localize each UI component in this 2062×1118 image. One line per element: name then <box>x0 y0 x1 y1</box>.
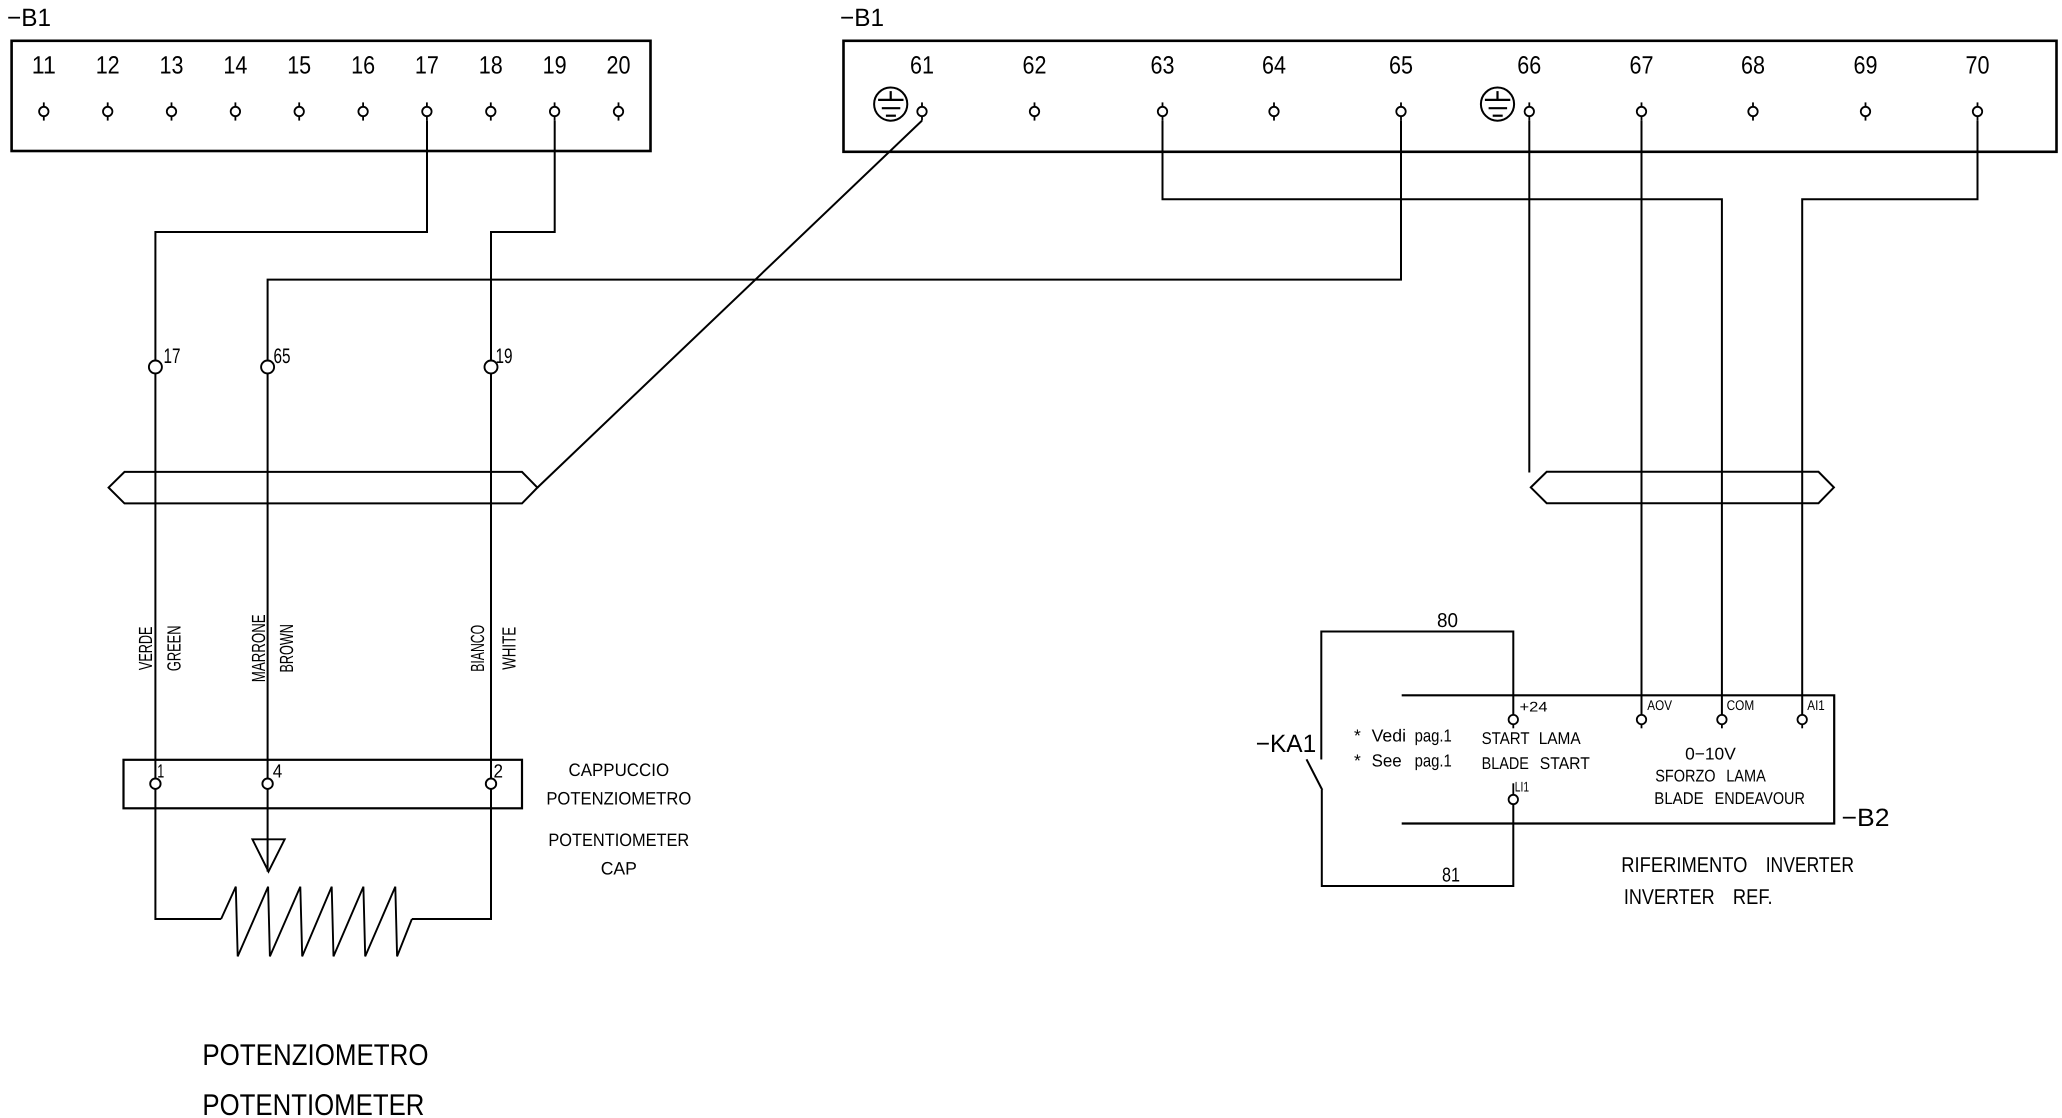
svg-text:−B2: −B2 <box>1842 804 1890 832</box>
svg-text:SFORZO: SFORZO <box>1655 767 1715 786</box>
svg-text:19: 19 <box>543 52 567 80</box>
svg-text:LAMA: LAMA <box>1726 767 1766 786</box>
svg-text:See: See <box>1372 751 1402 771</box>
svg-text:INVERTER: INVERTER <box>1624 885 1715 909</box>
terminal AOV circle <box>1637 715 1646 724</box>
svg-text:INVERTER: INVERTER <box>1766 853 1854 877</box>
node 19 connection circle <box>485 361 498 374</box>
svg-text:START: START <box>1482 729 1530 748</box>
svg-text:64: 64 <box>1262 52 1286 80</box>
svg-text:66: 66 <box>1517 52 1541 80</box>
terminal 66 connection point <box>1528 102 1530 107</box>
svg-text:13: 13 <box>160 52 184 80</box>
connector pin 4 circle <box>262 779 272 789</box>
svg-text:Vedi: Vedi <box>1372 726 1406 746</box>
cable shield symbol (right, inverter cable) <box>1531 472 1834 503</box>
terminal 14 connection point <box>234 102 236 107</box>
svg-text:−KA1: −KA1 <box>1256 730 1317 758</box>
wire 80 (KA1 to +24) <box>1321 632 1513 760</box>
svg-text:POTENZIOMETRO: POTENZIOMETRO <box>546 789 691 809</box>
svg-text:VERDE: VERDE <box>136 627 157 671</box>
svg-text:17: 17 <box>164 345 181 368</box>
svg-text:CAPPUCCIO: CAPPUCCIO <box>569 760 670 780</box>
svg-text:18: 18 <box>479 52 503 80</box>
terminal block -B1 (11-20) outline <box>12 41 651 151</box>
svg-text:0−10V: 0−10V <box>1685 745 1736 764</box>
svg-text:POTENTIOMETER: POTENTIOMETER <box>202 1089 424 1118</box>
svg-text:65: 65 <box>1389 52 1413 80</box>
terminal 68 connection point <box>1752 102 1754 107</box>
wire 81 (KA1 to LI1) <box>1322 790 1514 886</box>
terminal LI1 circle <box>1509 795 1518 804</box>
terminal 15 connection point <box>298 102 300 107</box>
svg-text:16: 16 <box>351 52 375 80</box>
svg-text:17: 17 <box>415 52 439 80</box>
svg-text:14: 14 <box>223 52 247 80</box>
svg-text:*: * <box>1354 726 1361 746</box>
svg-text:19: 19 <box>496 345 513 368</box>
svg-text:AI1: AI1 <box>1807 697 1825 713</box>
potentiometer cap connector outline <box>124 760 523 809</box>
svg-text:LAMA: LAMA <box>1539 729 1582 748</box>
wire from terminal 66 to cable shield <box>1528 121 1530 473</box>
svg-text:pag.1: pag.1 <box>1415 726 1452 746</box>
svg-text:REF.: REF. <box>1733 885 1773 909</box>
svg-text:62: 62 <box>1023 52 1047 80</box>
terminal COM circle <box>1717 715 1726 724</box>
wire from terminal 70 to -B2 AI1 <box>1802 121 1977 715</box>
terminal +24 circle <box>1509 715 1518 724</box>
terminal 20 connection point <box>618 102 620 107</box>
svg-text:+24: +24 <box>1520 699 1548 715</box>
svg-text:AOV: AOV <box>1647 697 1672 713</box>
svg-text:GREEN: GREEN <box>164 626 185 672</box>
svg-text:69: 69 <box>1854 52 1878 80</box>
svg-text:*: * <box>1354 751 1361 771</box>
terminal 16 connection point <box>362 102 364 107</box>
svg-text:COM: COM <box>1727 697 1755 713</box>
inverter box -B2 outline (open left side) <box>1402 695 1835 823</box>
svg-text:67: 67 <box>1630 52 1654 80</box>
ground symbol (PE) at terminal 61 <box>874 88 907 121</box>
ground symbol (PE) at terminal 66 <box>1481 88 1514 121</box>
svg-text:15: 15 <box>287 52 311 80</box>
potentiometer resistive element <box>221 887 412 957</box>
svg-text:START: START <box>1540 754 1590 773</box>
svg-text:POTENZIOMETRO: POTENZIOMETRO <box>202 1039 428 1072</box>
svg-text:20: 20 <box>607 52 631 80</box>
svg-text:65: 65 <box>274 345 291 368</box>
terminal 63 connection point <box>1162 102 1164 107</box>
node 65 connection circle <box>261 361 274 374</box>
svg-text:63: 63 <box>1151 52 1175 80</box>
terminal 69 connection point <box>1865 102 1867 107</box>
svg-text:WHITE: WHITE <box>499 627 520 670</box>
connector pin 2 circle <box>486 779 496 789</box>
svg-text:−B1: −B1 <box>840 4 884 32</box>
terminal block -B1 (61-70) outline <box>844 41 2057 152</box>
svg-text:80: 80 <box>1437 610 1458 632</box>
svg-text:4: 4 <box>273 762 283 783</box>
cable shield symbol (left, potentiometer cable) <box>109 472 538 504</box>
terminal 62 connection point <box>1034 102 1036 107</box>
terminal 18 connection point <box>490 102 492 107</box>
svg-text:RIFERIMENTO: RIFERIMENTO <box>1621 853 1747 877</box>
svg-text:70: 70 <box>1966 52 1990 80</box>
terminal 11 connection point <box>43 102 45 107</box>
svg-text:POTENTIOMETER: POTENTIOMETER <box>548 830 689 850</box>
node 17 connection circle <box>149 361 162 374</box>
terminal 67 connection point <box>1641 102 1643 107</box>
wire from terminal 65 to node 65 <box>268 121 1401 361</box>
wire from terminal 19 to node 19 <box>491 121 555 361</box>
wire from terminal 63 to -B2 COM <box>1163 121 1722 715</box>
terminal 65 connection point <box>1400 102 1402 107</box>
potentiometer wiper arrow <box>252 839 284 871</box>
svg-text:CAP: CAP <box>601 858 637 878</box>
svg-text:pag.1: pag.1 <box>1415 751 1452 771</box>
wire pin 2 to potentiometer right end <box>412 789 491 919</box>
svg-text:BLADE: BLADE <box>1482 754 1529 773</box>
wire pin 1 to potentiometer left end <box>155 789 221 919</box>
svg-text:BIANCO: BIANCO <box>468 625 489 672</box>
svg-text:−B1: −B1 <box>7 4 51 32</box>
wire node 17 to connector pin 1 (green) <box>154 374 156 779</box>
wire node 19 to connector pin 2 (white) <box>490 374 492 779</box>
terminal AI1 circle <box>1798 715 1807 724</box>
terminal 61 connection point <box>921 102 923 107</box>
svg-text:LI1: LI1 <box>1515 779 1529 795</box>
svg-text:ENDEAVOUR: ENDEAVOUR <box>1715 789 1805 808</box>
relay contact KA1 blade (NO contact) <box>1307 759 1323 790</box>
svg-text:11: 11 <box>32 52 56 80</box>
svg-text:MARRONE: MARRONE <box>249 614 270 682</box>
terminal 64 connection point <box>1273 102 1275 107</box>
wire from terminal 67 to -B2 AOV <box>1641 121 1643 715</box>
terminal 17 connection point <box>426 102 428 107</box>
svg-text:BROWN: BROWN <box>277 624 298 673</box>
terminal 70 connection point <box>1977 102 1979 107</box>
svg-text:68: 68 <box>1741 52 1765 80</box>
wire pin 4 to wiper arrow <box>267 789 269 872</box>
svg-text:12: 12 <box>96 52 120 80</box>
svg-text:81: 81 <box>1442 865 1460 887</box>
connector pin 1 circle <box>150 779 160 789</box>
terminal 12 connection point <box>107 102 109 107</box>
terminal 19 connection point <box>554 102 556 107</box>
wire node 65 to connector pin 4 (brown) <box>267 374 269 779</box>
terminal 13 connection point <box>171 102 173 107</box>
svg-text:61: 61 <box>910 52 934 80</box>
svg-text:BLADE: BLADE <box>1654 789 1703 808</box>
wire from terminal 17 to node 17 <box>155 121 427 361</box>
wire from terminal 61 to cable shield (diagonal) <box>537 121 922 488</box>
